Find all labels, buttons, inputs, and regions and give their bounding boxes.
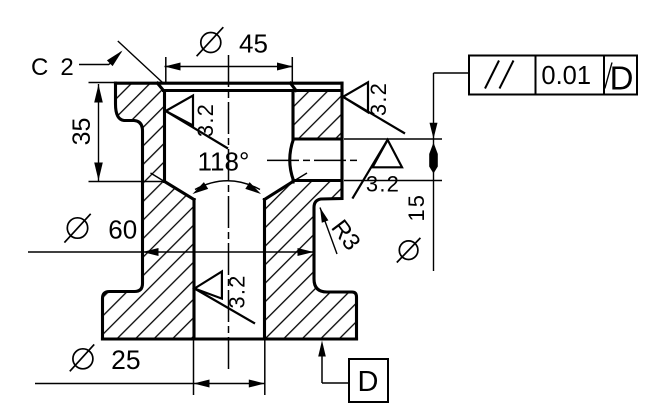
svg-text:45: 45 xyxy=(239,29,268,59)
svg-text:35: 35 xyxy=(68,118,96,146)
svg-text:2: 2 xyxy=(60,54,73,81)
svg-text:3.2: 3.2 xyxy=(366,82,391,116)
svg-text:15: 15 xyxy=(404,193,429,221)
svg-text:118°: 118° xyxy=(198,147,250,177)
svg-text:0.01: 0.01 xyxy=(541,62,591,90)
svg-text:D: D xyxy=(358,366,379,398)
svg-text:D: D xyxy=(610,60,634,97)
svg-text:3.2: 3.2 xyxy=(193,103,218,137)
svg-text:3.2: 3.2 xyxy=(366,172,400,197)
svg-text:60: 60 xyxy=(108,215,137,245)
svg-text:C: C xyxy=(31,54,48,81)
svg-text:25: 25 xyxy=(111,345,140,375)
svg-text:3.2: 3.2 xyxy=(225,274,250,308)
